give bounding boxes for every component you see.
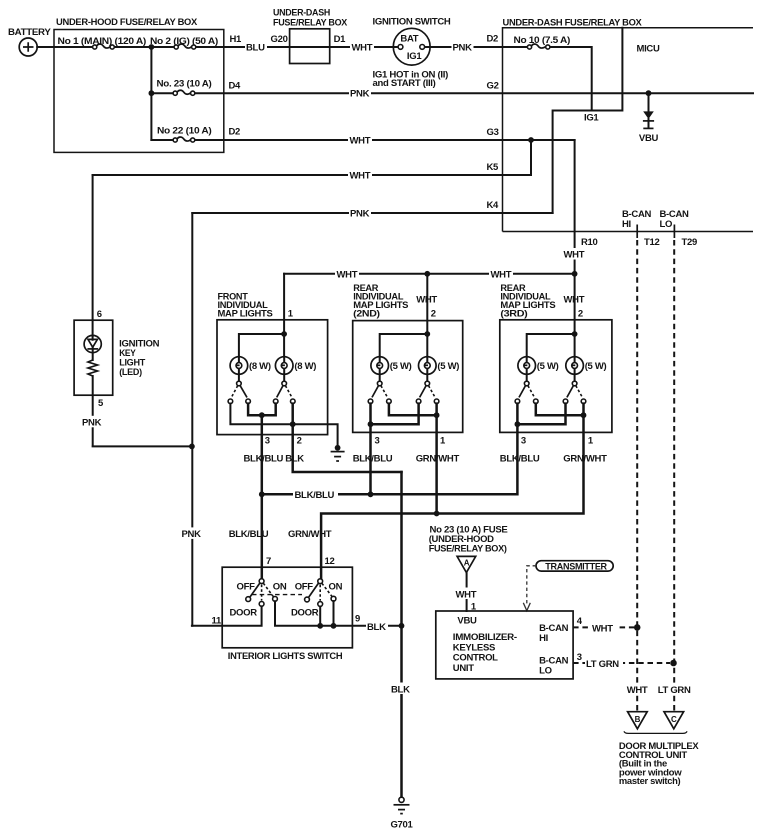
svg-text:BLK: BLK [367,622,386,633]
wire branch to left 2nd bulb [380,334,428,357]
interior lights switch box [222,567,352,648]
ground (front map lights) [331,445,345,461]
svg-text:D4: D4 [229,80,242,91]
svg-text:and START (III): and START (III) [373,78,436,89]
svg-text:D2: D2 [229,127,241,138]
interior switch right: dashed stem to DOOR [319,585,321,601]
svg-text:VBU: VBU [639,133,659,144]
dashed wire B-CAN LO (LT GRN) [573,662,670,664]
svg-text:G2: G2 [487,80,499,91]
interior switch left: dashed stem to DOOR [261,585,263,601]
transmitter [536,561,613,572]
svg-text:HI: HI [622,219,631,230]
node: pin2/ground junction [290,421,296,427]
under-hood fuse/relay box [54,17,224,152]
wire 2nd pin3 down (BLK/BLU) [369,424,372,494]
svg-text:C: C [671,715,677,724]
dashed wire B-CAN HI (WHT) [573,626,634,628]
svg-text:OFF: OFF [237,582,256,593]
svg-text:LT GRN: LT GRN [586,659,619,670]
svg-text:IG1: IG1 [407,51,422,62]
svg-text:BLK/BLU: BLK/BLU [229,529,269,540]
wire front ground link [230,404,337,448]
node: row9 / right DOOR junction [317,623,323,629]
node: BLK/BLU row / 2nd pin3 junction [368,491,374,497]
wire branch to left 3rd bulb [527,334,575,357]
svg-text:HI: HI [539,633,548,644]
wire row1 ignition switch to under-dash box [424,46,502,48]
svg-text:GRN/WHT: GRN/WHT [416,453,460,464]
svg-text:B: B [635,715,641,724]
interior switch left: pivot [259,579,264,584]
switch front-right (solid to left, dashed to right) [273,386,295,404]
ignition switch [373,17,451,90]
svg-text:BLU: BLU [246,42,265,53]
bulb 2nd-left (5 W) [371,357,412,386]
wire label WHT (row3) [348,134,372,147]
wire label WHT (3RD feed) [563,293,587,306]
svg-text:OFF: OFF [295,582,314,593]
interior switch left: ON contact [273,597,278,602]
wire K5 row down to ignition key light pin 6 [92,175,94,336]
T12 dashed wire down [636,240,638,711]
svg-text:(8 W): (8 W) [294,361,316,372]
node: 2nd pin1 junction [434,412,440,418]
fuse No 10 (7.5 A) [514,35,571,49]
node: row1 junction in under-hood box [149,44,155,50]
node: 2nd lamp feed junction [424,331,430,337]
wire 3rd pin3 link [517,404,565,425]
caption door multiplex control unit [619,741,699,787]
svg-text:PNK: PNK [82,418,102,429]
svg-text:(5 W): (5 W) [585,361,607,372]
svg-text:(LED): (LED) [119,367,142,378]
svg-text:T12: T12 [644,237,659,248]
interior switch right: dashed arm to ON [322,583,332,596]
wire label BLK/BLU (bus row) [293,488,338,501]
svg-text:K4: K4 [487,200,500,211]
svg-text:G20: G20 [271,34,288,45]
wire front pin3 down (BLK/BLU) [261,415,264,579]
node: B-CAN HI / T12 junction [634,624,641,631]
wire label WHT (row1) [350,41,374,54]
svg-text:R10: R10 [581,237,598,248]
rear individual map lights (2nd) box [353,283,463,433]
svg-text:(2ND): (2ND) [353,308,380,319]
svg-text:T29: T29 [682,237,697,248]
wire front pin2 down (BLK) [293,404,402,472]
wire row5 K4 (PNK) [192,212,552,214]
svg-text:(5 W): (5 W) [390,361,412,372]
wire right ON drop [333,601,335,626]
svg-text:11: 11 [212,615,222,626]
bulb 3rd-right (5 W) [566,357,607,386]
dashed link transmitter to immobilizer [527,566,536,606]
svg-text:K5: K5 [487,162,500,173]
svg-text:G701: G701 [390,820,413,831]
interior switch right: DOOR contact [318,602,323,607]
node: front pin3 junction [259,412,265,418]
wire label WHT (feed row right) [489,267,513,280]
under-dash fuse/relay box (small, G20-D1) [271,8,348,64]
svg-text:UNIT: UNIT [453,663,474,674]
svg-text:No. 23 (10 A): No. 23 (10 A) [157,79,212,90]
interior switch left: OFF contact [246,597,251,602]
svg-text:3: 3 [265,436,270,447]
svg-text:BLK: BLK [285,453,304,464]
diode VBU [639,93,659,144]
svg-text:WHT: WHT [350,135,371,146]
svg-text:WHT: WHT [491,270,512,281]
svg-text:IG1: IG1 [584,113,599,124]
wire row 11: PNK to left DOOR contact [192,606,262,625]
terminal T12 tick [636,225,638,239]
svg-text:No 22 (10 A): No 22 (10 A) [157,125,212,136]
svg-text:UNDER-HOOD FUSE/RELAY BOX: UNDER-HOOD FUSE/RELAY BOX [56,17,198,28]
wire row 9: left ON to BLK riser [275,601,402,626]
svg-text:GRN/WHT: GRN/WHT [563,453,607,464]
interior switch left: dashed arm to ON [263,583,273,597]
wire IG1: fuse output down [503,47,592,111]
node: PNK riser / key light junction [189,444,195,450]
LED (ignition key light) [84,335,101,360]
switch front-left (dashed to OFF left, solid to right) [228,386,250,404]
svg-text:IGNITION SWITCH: IGNITION SWITCH [373,17,451,28]
node: front lamp feed junction [281,331,287,337]
svg-text:FUSE/RELAY BOX): FUSE/RELAY BOX) [429,543,507,554]
ignition key light box [74,320,160,395]
svg-text:No 10 (7.5 A): No 10 (7.5 A) [514,35,571,46]
svg-text:PNK: PNK [453,42,473,53]
wire BLK/BLU bus row [262,424,518,494]
node: GRN/WHT row / 2nd pin1 junction [434,511,440,517]
svg-text:FUSE/RELAY BOX: FUSE/RELAY BOX [273,18,348,29]
svg-text:3: 3 [521,436,526,447]
node: WHT row / R10 junction [572,271,578,277]
node: K5/G3 junction [528,137,534,143]
svg-text:3: 3 [577,652,582,663]
bulb front-left (8 W) [230,357,271,386]
svg-text:VBU: VBU [457,615,477,626]
terminal T29 tick [673,225,675,239]
svg-text:DOOR: DOOR [291,608,319,619]
wire row2 D4-G2 (PNK) [151,92,753,94]
wire label WHT (feed row left) [335,267,359,280]
svg-text:MICU: MICU [637,44,660,55]
T29 dashed wire down [673,240,675,711]
wire 2nd pin3 link [371,404,419,425]
svg-text:master switch): master switch) [619,776,681,787]
svg-text:9: 9 [355,614,360,625]
switch 3rd-right (solid to left, dashed to right) [563,386,586,404]
svg-text:2: 2 [297,436,302,447]
wire label BLK (G701 riser) [390,683,412,696]
wire pin2 2nd down [426,274,428,357]
svg-text:LO: LO [660,219,673,230]
svg-text:3: 3 [375,436,380,447]
wire label PNK (row1) [452,41,474,54]
svg-text:(5 W): (5 W) [437,361,459,372]
svg-text:6: 6 [97,309,102,320]
connector B (door multiplex) [628,712,648,729]
wire pin2 3rd down [574,274,576,357]
svg-text:MAP LIGHTS: MAP LIGHTS [218,308,273,319]
node: 3rd pin3 junction [515,421,521,427]
wire connector A to immobilizer pin 1 (WHT) [466,573,468,611]
wire right DOOR drop [319,607,321,626]
wire battery to under-hood box (row1) [37,46,398,48]
svg-text:BATTERY: BATTERY [8,27,51,38]
svg-text:ON: ON [273,582,287,593]
wire label PNK (riser) [181,527,203,540]
fuse No 1 (MAIN) (120 A) [58,36,147,49]
interior switch right: OFF contact [305,597,310,602]
wire pin 5 down [93,376,192,446]
brace under connectors [624,731,687,733]
wire: vertical bus in under-hood box [150,47,152,140]
svg-text:BLK/BLU: BLK/BLU [244,453,284,464]
immobilizer-keyless control unit box [436,611,573,679]
svg-text:WHT: WHT [337,270,358,281]
rear individual map lights (3rd) box [500,283,612,433]
wire label PNK (key light lead) [81,416,103,429]
wire 2nd pin1 down (GRN/WHT) [435,415,438,513]
node: G2/diode junction [646,90,652,96]
svg-text:(5 W): (5 W) [537,361,559,372]
svg-text:LT GRN: LT GRN [658,685,691,696]
wire PNK main riser [191,213,193,626]
node: row9 / right ON junction [331,623,337,629]
interior switch left: solid arm to OFF [250,583,260,597]
node: row9 / BLK riser junction [399,623,405,629]
fuse No. 23 (10 A) [157,79,212,96]
svg-text:BLK: BLK [391,684,410,695]
bulb 3rd-left (5 W) [518,357,559,386]
wire front pin3 U-link [248,404,276,416]
wire label LT GRN (T29 drop) [657,683,693,696]
node: 3rd lamp feed junction [572,331,578,337]
wire label WHT (on R10 line above tee) [563,248,587,261]
svg-text:G3: G3 [487,127,499,138]
bulb front-right (8 W) [275,357,316,386]
svg-text:PNK: PNK [350,208,370,219]
interior switch right: solid arm to OFF [308,583,318,598]
svg-text:ON: ON [329,582,343,593]
wire branch to left front bulb [239,334,284,357]
connector A (to under-hood fuse box) [457,556,476,572]
wire label WHT (immobilizer feed) [455,588,479,601]
svg-text:PNK: PNK [350,89,370,100]
node: 3rd pin1 junction [581,412,587,418]
svg-text:7: 7 [266,556,271,567]
interior switch left: DOOR contact [259,602,264,607]
svg-text:(3RD): (3RD) [500,308,527,319]
wire label WHT (B-CAN HI) [591,622,616,634]
fuse No 22 (10 A) [157,125,212,142]
node: WHT row / 2nd feed junction [424,271,430,277]
svg-text:WHT: WHT [592,623,613,634]
wire GRN/WHT bus row [321,415,583,579]
arrowhead (transmitter link) [523,603,530,611]
wire 3rd pin1 link [536,404,584,416]
fuse No 2 (IG) (50 A) [150,36,218,49]
svg-text:WHT: WHT [456,589,477,600]
svg-text:D2: D2 [487,33,499,44]
wire G3 to R10 (down) [574,140,576,274]
front individual map lights box [217,291,328,434]
node: BLK/BLU row / front pin3 junction [259,491,265,497]
wire row4 K5 (WHT) [93,174,531,176]
switch 2nd-left (solid to left, dashed to right) [368,386,391,404]
svg-text:BAT: BAT [400,33,418,44]
node: B-CAN LO / T29 junction [670,660,677,667]
wire BLK to G701 riser [400,472,403,799]
svg-text:H1: H1 [230,34,243,45]
svg-text:TRANSMITTER: TRANSMITTER [545,561,607,571]
svg-text:A: A [464,558,470,567]
wire pin1 front down [283,274,285,357]
svg-text:WHT: WHT [350,170,371,181]
interior switch right: pivot [318,579,323,584]
svg-text:LO: LO [539,666,552,677]
wire label PNK (row5) [349,207,371,220]
interior switch right: ON contact [331,596,336,601]
svg-text:INTERIOR LIGHTS SWITCH: INTERIOR LIGHTS SWITCH [228,651,343,662]
under-dash fuse/relay box (MICU) [503,18,754,232]
wire WHT feed row to map lights [284,273,574,275]
svg-text:WHT: WHT [627,685,648,696]
svg-text:BLK/BLU: BLK/BLU [500,453,540,464]
node: junction on row2 [149,90,155,96]
wire row3 D2-G3 (WHT) [151,139,574,141]
wire label PNK (row2) [349,87,371,100]
svg-text:(8 W): (8 W) [249,361,271,372]
connector C (door multiplex) [664,712,684,729]
svg-text:BLK/BLU: BLK/BLU [295,490,335,501]
wire K5 up to G3 row [530,140,532,175]
svg-text:12: 12 [325,556,335,567]
switch 2nd-right (solid to left, dashed to right) [416,386,439,404]
wire label WHT (row4) [348,169,372,182]
wire label BLU [245,41,267,54]
wire label WHT (T12 drop) [625,683,649,696]
node: 2nd pin3 junction [368,421,374,427]
svg-text:2: 2 [431,309,436,320]
bulb 2nd-right (5 W) [419,357,460,386]
resistor (key light series) [88,360,98,376]
wire 2nd pin1 link [389,404,437,416]
svg-text:D1: D1 [334,34,347,45]
svg-text:PNK: PNK [182,529,202,540]
interior switch: dashed coupling link [252,594,302,596]
wire label WHT (2nd feed) [415,293,439,306]
ground G701 [390,797,413,830]
svg-text:WHT: WHT [352,42,373,53]
battery B1 [8,27,51,56]
svg-text:WHT: WHT [564,250,585,261]
wire K4 to MICU top [553,28,623,213]
svg-text:GRN/WHT: GRN/WHT [288,529,332,540]
wire label BLK (row 9) [366,620,388,633]
svg-text:2: 2 [578,309,583,320]
wire label LT GRN (B-CAN LO) [585,658,623,670]
switch 3rd-left (solid to left, dashed to right) [515,386,538,404]
svg-text:BLK/BLU: BLK/BLU [353,453,393,464]
svg-text:DOOR: DOOR [230,608,258,619]
